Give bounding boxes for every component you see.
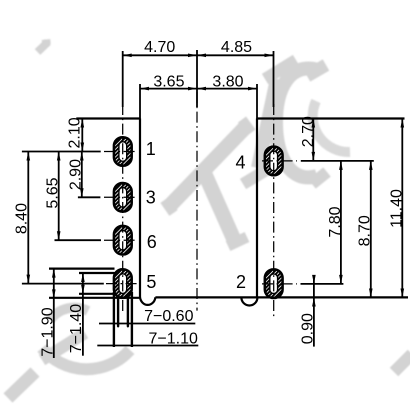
- svg-text:8.70: 8.70: [357, 215, 374, 246]
- svg-text:5.65: 5.65: [45, 177, 62, 208]
- svg-text:7.80: 7.80: [327, 206, 344, 237]
- svg-text:3: 3: [146, 187, 156, 207]
- svg-text:3.80: 3.80: [212, 74, 243, 91]
- svg-text:2.70: 2.70: [300, 116, 317, 147]
- svg-text:7−1.40: 7−1.40: [68, 304, 85, 353]
- svg-text:7−0.60: 7−0.60: [144, 308, 193, 325]
- svg-text:7−1.10: 7−1.10: [149, 330, 198, 347]
- svg-text:11.40: 11.40: [389, 189, 406, 228]
- svg-text:2: 2: [236, 272, 246, 292]
- svg-text:4.85: 4.85: [221, 39, 252, 56]
- svg-text:8.40: 8.40: [13, 203, 30, 234]
- svg-text:2.90: 2.90: [67, 159, 84, 190]
- svg-text:6: 6: [147, 232, 157, 252]
- svg-text:4: 4: [235, 153, 245, 173]
- svg-text:2.10: 2.10: [67, 117, 84, 148]
- svg-text:1: 1: [146, 139, 156, 159]
- svg-text:3.65: 3.65: [153, 74, 184, 91]
- svg-text:7−1.90: 7−1.90: [39, 307, 56, 356]
- svg-text:5: 5: [146, 272, 156, 292]
- svg-text:0.90: 0.90: [300, 313, 317, 344]
- svg-text:4.70: 4.70: [144, 39, 175, 56]
